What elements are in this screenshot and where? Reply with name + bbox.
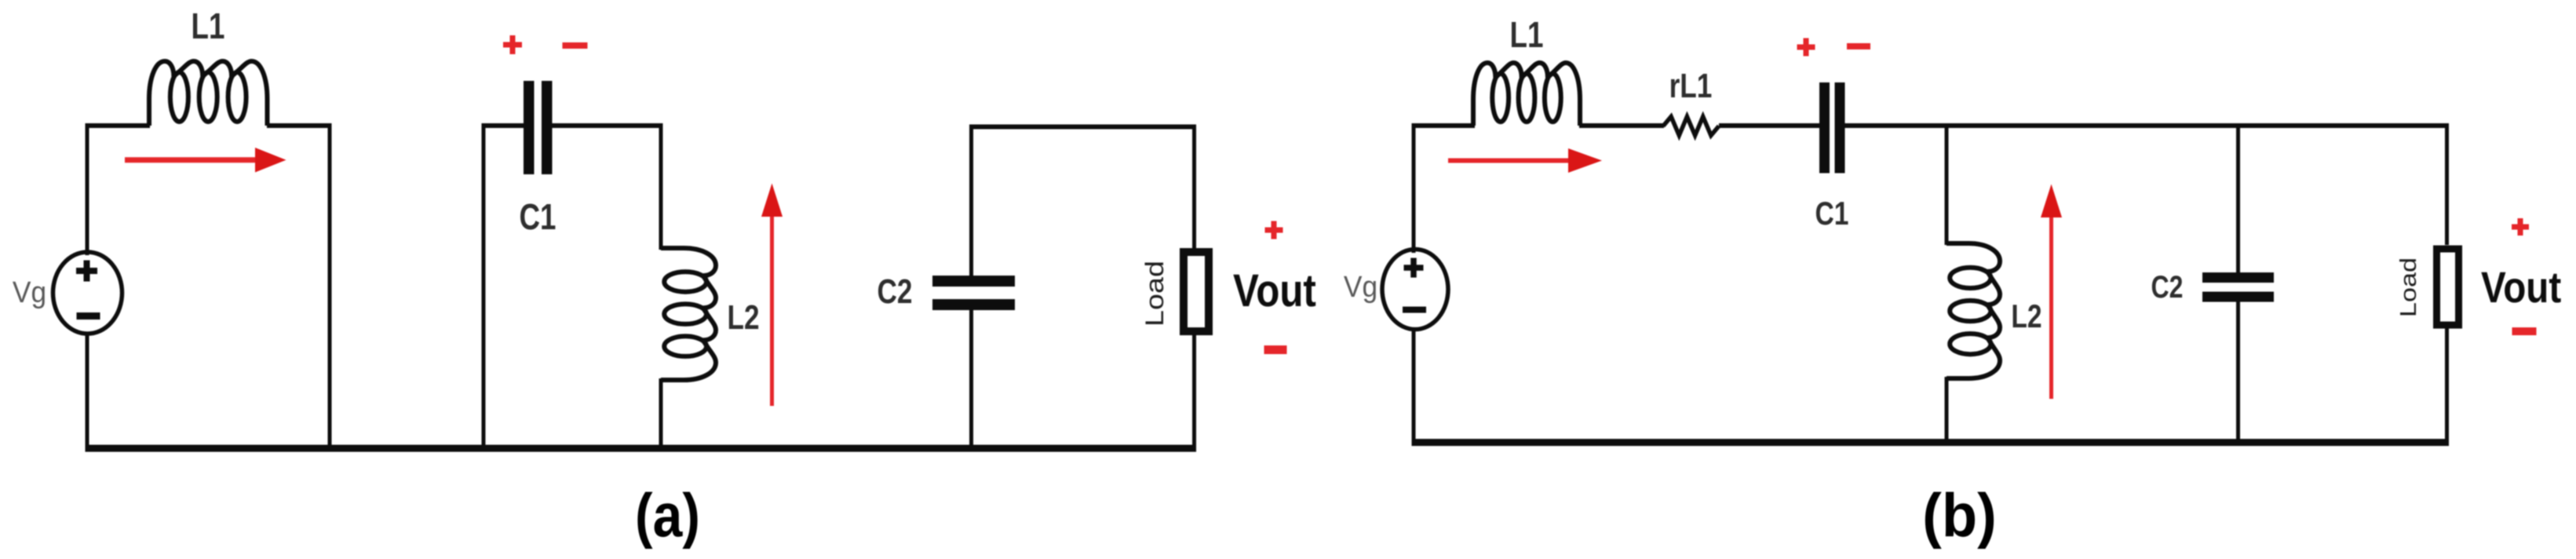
svg-text:C2: C2 [2151,269,2184,305]
C1 (a) plus polarity [503,35,522,54]
Vout plus (b) [2512,218,2529,236]
wire - (a) top left segment [86,123,151,128]
inductor L2 (a) [661,248,716,380]
svg-text:Vg: Vg [1344,270,1377,303]
wire - (b) left vertical above Vg [1412,123,1416,253]
current arrow (b) input [1448,148,1602,173]
svg-text:C1: C1 [519,196,556,237]
capacitor C2 (b) [2202,272,2274,302]
wire - (b) top segment L1 to rL1 [1579,123,1664,128]
voltage source Vg (a) [53,252,122,334]
svg-text:Load: Load [1141,261,1169,327]
load resistor (a) [1184,252,1209,331]
Vout minus (b) [2512,327,2537,335]
current arrow (b) vertical by L2 [2041,185,2062,400]
wire - (a) output loop top [969,125,1196,130]
svg-text:L2: L2 [727,298,759,337]
svg-text:L2: L2 [2011,299,2041,335]
C1 (b) minus polarity [1847,43,1870,49]
svg-text:(a): (a) [635,482,700,550]
svg-text:C1: C1 [1815,196,1849,232]
C1 (b) plus polarity [1797,38,1815,57]
inductor L2 (b) [1947,243,2000,378]
load resistor (b) [2437,249,2459,325]
wire - (b) load vertical upper [2445,126,2449,245]
svg-text:rL1: rL1 [1669,67,1713,105]
circuit (a) bottom wire / ground rail [86,445,1197,452]
svg-text:Vout: Vout [2481,263,2561,312]
wire - (a) loop2 left vertical [482,123,486,448]
Vout plus (a) [1265,221,1283,239]
Vout minus (a) [1264,345,1287,354]
svg-text:L1: L1 [1510,14,1544,55]
wire - (b) top segment C1 to load corner [1845,123,2450,128]
wire - (b) load vertical lower [2445,325,2449,443]
wire - (a) loop1 right vertical [328,123,332,448]
wire - (a) C2 vertical upper [969,125,973,276]
voltage source Vg (b) [1382,250,1448,330]
C1 (a) minus polarity [563,42,588,49]
svg-text:Load: Load [2395,258,2421,317]
wire - (a) top segment L1 to corner [267,123,330,128]
Vg (a) minus sign [77,312,100,320]
wire - (a) top segment C1 to corner [553,123,662,128]
Vg (b) plus sign [1404,258,1424,278]
svg-text:L1: L1 [192,5,225,46]
current arrow (a) input [125,148,286,173]
Vg (a) plus sign [76,261,97,282]
inductor L1 (a) [149,61,268,126]
capacitor C2 (a) [932,276,1015,310]
svg-text:Vout: Vout [1233,265,1316,316]
wire - (b) L2 vertical lower [1945,377,1949,443]
wire - (b) C2 vertical lower [2236,302,2240,443]
svg-text:Vg: Vg [13,276,46,309]
capacitor C1 (b) [1819,82,1845,174]
capacitor C1 (a) [524,81,553,174]
wire - (a) right vertical to L2 [659,123,663,250]
wire - (a) vertical below L2 [659,378,663,448]
resistor rL1 (b) [1663,117,1719,136]
wire - (b) top segment Vg to L1 [1412,123,1476,128]
circuit (b) bottom wire / ground rail [1412,439,2450,446]
wire - (a) top segment to C1 [482,123,524,128]
wire - (a) left vertical below Vg [86,334,89,448]
wire - (b) left vertical below Vg [1412,330,1416,443]
wire - (a) C2 vertical lower [969,310,973,448]
wire - (a) load vertical lower [1192,335,1196,448]
wire - (b) L2 vertical upper [1945,126,1949,245]
wire - (a) left vertical above Vg [86,123,89,255]
current arrow (a) vertical by L2 [761,184,783,407]
wire - (a) load vertical upper [1192,127,1196,249]
Vg (b) minus sign [1403,307,1426,313]
inductor L1 (b) [1473,63,1580,126]
wire - (b) rL1 to C1 [1719,123,1819,128]
svg-text:C2: C2 [878,272,913,311]
wire - (b) C2 vertical upper [2236,126,2240,272]
svg-text:(b): (b) [1922,481,1997,550]
